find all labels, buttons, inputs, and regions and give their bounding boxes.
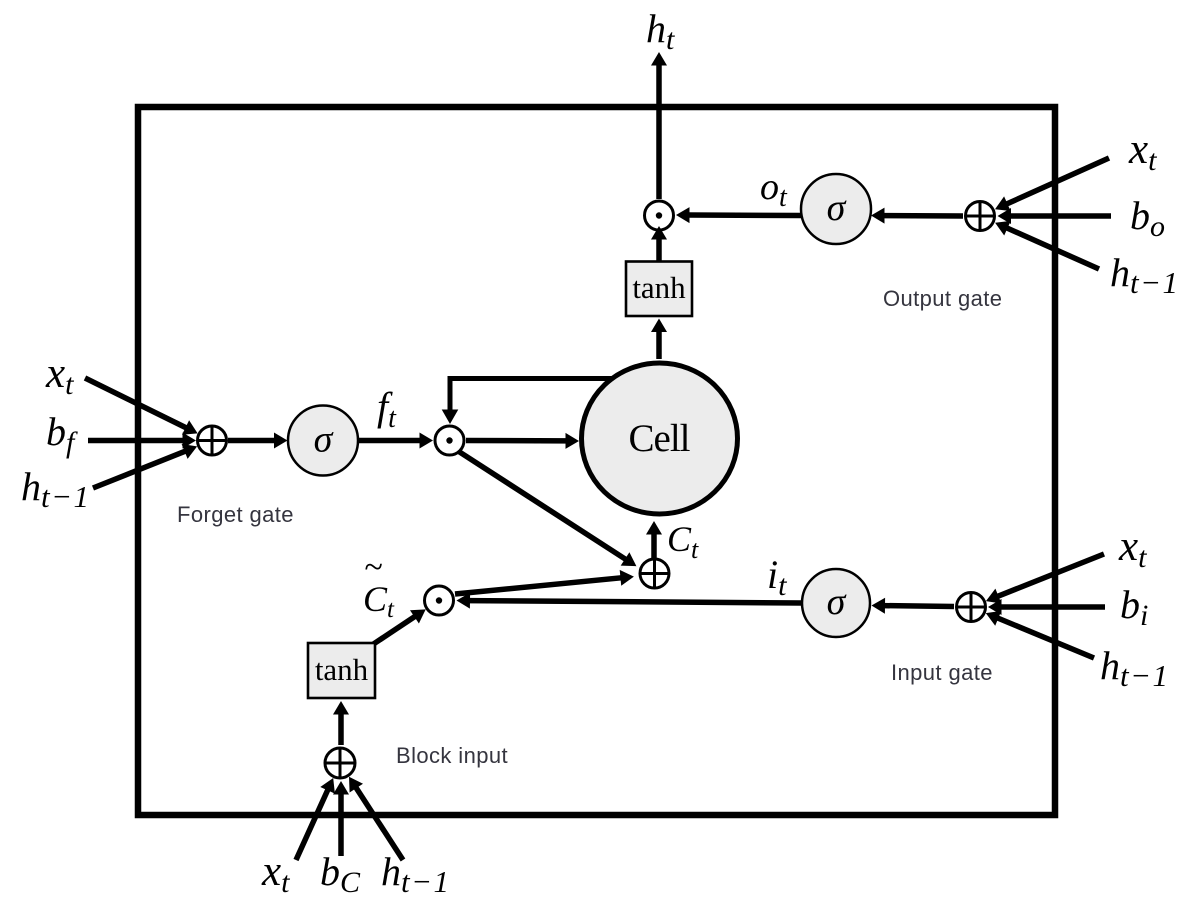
- wire: forget-gate sum to sigma: [228, 433, 288, 449]
- svg-text:Cell: Cell: [629, 417, 691, 460]
- svg-text:σ: σ: [314, 419, 334, 461]
- sum node C_t ⊕: [640, 559, 669, 588]
- svg-text:ft: ft: [377, 384, 397, 434]
- wire: tanh (block input) to candidate product node: [372, 609, 426, 645]
- svg-text:σ: σ: [827, 187, 847, 229]
- svg-text:ht: ht: [646, 6, 675, 56]
- svg-text:ot: ot: [760, 166, 788, 213]
- wire: input-gate sum to sigma: [872, 598, 955, 614]
- svg-text:ht−1: ht−1: [1100, 643, 1170, 693]
- svg-text:tanh: tanh: [632, 270, 686, 305]
- Cell state circle: [582, 363, 738, 514]
- svg-text:Output gate: Output gate: [883, 286, 1002, 311]
- svg-text:ht−1: ht−1: [381, 849, 451, 899]
- svg-text:Ct: Ct: [667, 519, 699, 564]
- wire: C_t sum to Cell: [646, 521, 662, 558]
- wire: b_i to input-gate sum: [988, 599, 1105, 615]
- wire: b_C to block-input sum: [333, 781, 349, 856]
- svg-text:bi: bi: [1120, 582, 1148, 632]
- wire: block-input sum to tanh: [333, 701, 349, 745]
- product node (forget gate) ⊙: [435, 426, 464, 455]
- wire: output-gate sum to sigma: [871, 208, 963, 224]
- wire: sigma (input gate) to candidate product node: [457, 593, 803, 609]
- wire: sigma (forget gate) to forget product node: [358, 433, 433, 449]
- wire: candidate product node to C_t sum: [455, 570, 634, 594]
- wire: Cell to tanh: [651, 319, 667, 360]
- wire: h_t-1 to forget-gate sum: [93, 444, 197, 488]
- product node (output gate) ⊙: [645, 201, 674, 230]
- svg-text:bC: bC: [320, 849, 361, 899]
- sum node (output gate) ⊕: [966, 202, 995, 231]
- sum node (forget gate) ⊕: [198, 426, 227, 455]
- wire: x_t to forget-gate sum: [85, 378, 198, 435]
- product node (candidate) ⊙: [425, 586, 454, 615]
- label C~_t (candidate): [363, 549, 395, 623]
- wire: h_t-1 to output-gate sum: [995, 221, 1099, 269]
- svg-text:bf: bf: [46, 409, 78, 459]
- svg-text:ht−1: ht−1: [21, 464, 91, 514]
- svg-text:xt: xt: [261, 848, 290, 899]
- svg-text:xt: xt: [1118, 523, 1147, 574]
- LSTM cell boundary box: [138, 107, 1055, 815]
- wire: x_t to block-input sum: [296, 778, 335, 860]
- wire: h_t-1 to input-gate sum: [986, 611, 1094, 658]
- wire: tanh to output product node: [651, 226, 667, 261]
- svg-text:ht−1: ht−1: [1110, 250, 1180, 300]
- svg-text:~: ~: [364, 549, 382, 586]
- svg-text:tanh: tanh: [315, 652, 369, 687]
- svg-text:xt: xt: [1128, 126, 1157, 177]
- wire: b_f to forget-gate sum: [88, 433, 196, 449]
- tanh box (block input): [308, 643, 375, 698]
- svg-text:it: it: [767, 552, 787, 602]
- wire: Cell recurrent loop (vertical segment): [448, 376, 453, 410]
- sum node (input gate) ⊕: [957, 593, 986, 622]
- wire: forget product node to C_t sum (diagonal): [458, 451, 636, 566]
- wire: forget product node to Cell: [466, 433, 579, 449]
- svg-text:σ: σ: [827, 581, 847, 623]
- wire: x_t to output-gate sum: [995, 158, 1109, 211]
- wire: sigma (output gate) to output product node: [676, 207, 801, 223]
- wire: x_t to input-gate sum: [986, 554, 1104, 604]
- sigma unit U-output: [801, 174, 871, 244]
- arrowhead: recurrent loop into forget product node: [442, 410, 459, 425]
- svg-text:bo: bo: [1130, 193, 1165, 243]
- wire: b_o to output-gate sum: [998, 208, 1112, 224]
- wire: h_t-1 to block-input sum: [349, 777, 403, 860]
- svg-text:xt: xt: [45, 350, 74, 401]
- svg-text:Input gate: Input gate: [891, 660, 993, 685]
- wire: output product to h_t: [651, 52, 667, 199]
- svg-text:Forget gate: Forget gate: [177, 502, 294, 527]
- sum node (block input) ⊕: [325, 748, 355, 778]
- sigma unit U-forget: [288, 406, 358, 476]
- tanh box (output path): [626, 262, 692, 317]
- wire: Cell recurrent loop (horizontal segment): [450, 376, 618, 381]
- svg-text:Block input: Block input: [396, 743, 508, 768]
- sigma unit U-input: [802, 569, 870, 637]
